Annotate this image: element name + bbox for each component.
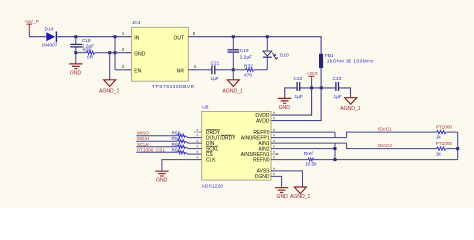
svg-text:OUT: OUT: [173, 36, 184, 42]
svg-text:MOSI: MOSI: [137, 136, 149, 141]
svg-text:+3V3: +3V3: [306, 71, 317, 76]
svg-text:IN4007: IN4007: [42, 43, 58, 49]
svg-text:PT1000_CS1: PT1000_CS1: [137, 147, 166, 152]
svg-text:R61: R61: [172, 147, 181, 153]
svg-text:GND: GND: [279, 105, 291, 111]
wire IDAC2 jog: [347, 143, 437, 149]
wire D14 to IN pin: [57, 36, 125, 38]
node junction C18 bottom: [74, 51, 77, 54]
power port +5V_P: [25, 19, 39, 37]
capacitor C18: [70, 37, 94, 53]
pin SCKL name: [206, 146, 219, 152]
svg-text:1µF: 1µF: [211, 76, 219, 82]
LED D10: [263, 37, 289, 70]
node junction AIN2 tie: [334, 147, 337, 150]
wire vertical tie IN/GND/EN: [114, 37, 116, 70]
svg-text:C23: C23: [333, 76, 342, 82]
ground AGND_1 under AVSS: [290, 187, 311, 200]
capacitor C23: [333, 76, 342, 100]
wire AIN1: [271, 142, 347, 144]
resistor PT1000 1k (top): [436, 125, 458, 141]
svg-text:AGND_1: AGND_1: [340, 106, 361, 112]
pin CS name: [206, 152, 214, 158]
svg-text:IDAC1: IDAC1: [378, 127, 392, 132]
wire DVDD riser: [271, 88, 312, 115]
svg-text:FB1: FB1: [325, 53, 334, 59]
wire AIN0/REFP1: [271, 137, 347, 139]
pin stub IN: [125, 36, 132, 38]
svg-text:2.2µF: 2.2µF: [240, 54, 252, 60]
svg-text:CLK: CLK: [206, 157, 216, 163]
wire IDAC1 jog: [347, 132, 437, 138]
wire AVSS: [271, 171, 303, 187]
svg-text:EN: EN: [134, 69, 141, 75]
svg-text:1k: 1k: [436, 151, 442, 157]
diode D14: [42, 26, 58, 48]
ground GND left of C22: [278, 98, 291, 111]
capacitor C19: [228, 37, 253, 70]
svg-text:GND: GND: [134, 52, 146, 58]
power port +3V3: [306, 71, 317, 88]
svg-text:Rref: Rref: [304, 151, 314, 157]
pin stub NR: [188, 69, 197, 71]
svg-text:JC4: JC4: [132, 20, 141, 26]
node junction +3V3/DVDD riser: [310, 86, 313, 89]
svg-text:1µF: 1µF: [295, 94, 303, 100]
resistor PT1000 1k (bottom): [436, 141, 458, 157]
pin stub OUT: [188, 36, 197, 38]
svg-text:1µF: 1µF: [334, 94, 342, 100]
pin DRDY name: [206, 130, 221, 136]
wire REFN0 with resistor Rref: [271, 151, 458, 167]
node junction on GND row at AGND drop: [108, 51, 111, 54]
svg-text:R58: R58: [172, 131, 181, 137]
svg-text:C21: C21: [211, 60, 220, 66]
svg-text:AGND_1: AGND_1: [223, 89, 244, 95]
svg-text:R60: R60: [172, 142, 181, 148]
svg-text:C19: C19: [240, 48, 249, 54]
svg-text:C18: C18: [82, 38, 91, 44]
svg-text:GND: GND: [277, 194, 289, 200]
node junction at D10: [266, 35, 269, 38]
ferrite bead FB1: [319, 53, 374, 88]
node junction on IN wire at tie: [114, 35, 117, 38]
wire +5V to D14: [29, 36, 46, 38]
resistor R66 0R: [76, 48, 125, 61]
pin number marks U8: [197, 112, 275, 175]
svg-text:R59: R59: [172, 136, 181, 142]
wire REFP0: [271, 131, 335, 133]
svg-text:PT1000: PT1000: [436, 141, 453, 146]
svg-text:D14: D14: [45, 26, 54, 32]
svg-text:GND: GND: [70, 71, 82, 77]
wire mid rail 3V3: [285, 88, 351, 98]
node junction C19 bottom / NR net: [232, 68, 235, 71]
net MOSI wire + resistor R59: [136, 136, 201, 143]
svg-text:10.5k: 10.5k: [305, 161, 317, 167]
svg-text:PT1000: PT1000: [436, 125, 453, 130]
wire EN row: [115, 69, 125, 71]
svg-text:D10: D10: [280, 53, 289, 59]
wire right return vertical: [457, 132, 459, 160]
wire CLK to ground: [162, 160, 202, 171]
ground GND under CLK: [155, 171, 168, 183]
ground GND under DGND: [275, 188, 288, 200]
svg-text:R66: R66: [83, 48, 92, 54]
svg-text:470: 470: [244, 72, 252, 78]
svg-text:R32: R32: [244, 64, 253, 70]
svg-text:+5V_P: +5V_P: [25, 19, 39, 24]
svg-text:SCLK: SCLK: [137, 142, 150, 147]
svg-text:1k: 1k: [436, 135, 442, 141]
net SCLK wire + resistor R60: [136, 142, 201, 149]
svg-text:IDAC2: IDAC2: [378, 143, 392, 148]
wire AIN2: [271, 148, 335, 150]
svg-text:DGND: DGND: [255, 174, 270, 180]
svg-text:U8: U8: [202, 104, 208, 110]
svg-text:C22: C22: [294, 76, 303, 82]
pin DOUT/DRDY name: [206, 135, 236, 141]
svg-text:0R: 0R: [87, 55, 94, 61]
svg-text:REFN0: REFN0: [253, 157, 270, 163]
ground AGND_1 right of C23: [340, 98, 361, 113]
node junction right vertical: [456, 147, 459, 150]
ground AGND_1 below GND row: [99, 53, 120, 95]
node junction FB1/AVDD riser: [320, 86, 323, 89]
ground GND under C18: [69, 53, 82, 77]
node junction on GND row at tie: [114, 51, 117, 54]
pin stub AIN3/REFN1: [271, 153, 278, 155]
capacitor C22: [294, 76, 303, 100]
wire DGND: [271, 176, 282, 187]
wire tie REFP0/REFP1: [334, 132, 336, 138]
node junction at C19: [232, 35, 235, 38]
regulator JC4 body: [132, 20, 195, 90]
svg-text:MISO: MISO: [137, 131, 149, 136]
ground AGND_1 under C19: [223, 70, 244, 95]
node junction on IN wire at C18: [74, 35, 77, 38]
svg-text:TPS79330DBVR: TPS79330DBVR: [152, 84, 195, 90]
capacitor C21 on NR: [197, 60, 234, 82]
svg-text:AVDD: AVDD: [256, 118, 270, 124]
node junction REFN0 tie: [334, 158, 337, 161]
pin stub EN: [125, 69, 132, 71]
svg-text:NR: NR: [177, 69, 185, 75]
net PT1000_CS1 wire + resistor R61: [136, 147, 201, 154]
svg-text:ADS1220: ADS1220: [202, 183, 224, 189]
pin stub GND: [125, 52, 132, 54]
svg-text:GND: GND: [156, 177, 168, 183]
svg-text:AGND_1: AGND_1: [99, 89, 120, 95]
resistor R32 470: [233, 64, 267, 79]
svg-text:1kOhm @ 100MHz: 1kOhm @ 100MHz: [327, 58, 374, 64]
wire OUT rail to FB1: [197, 37, 321, 54]
svg-text:IN: IN: [134, 36, 139, 42]
wire AVDD riser: [271, 88, 321, 121]
wire tie AIN1/AIN2/REFN0: [334, 143, 336, 160]
svg-text:AGND_1: AGND_1: [290, 194, 311, 200]
pin stub DRDY unconnected: [194, 131, 202, 133]
net MISO wire + resistor R58: [136, 131, 201, 138]
ADC U8 body: [202, 104, 272, 189]
